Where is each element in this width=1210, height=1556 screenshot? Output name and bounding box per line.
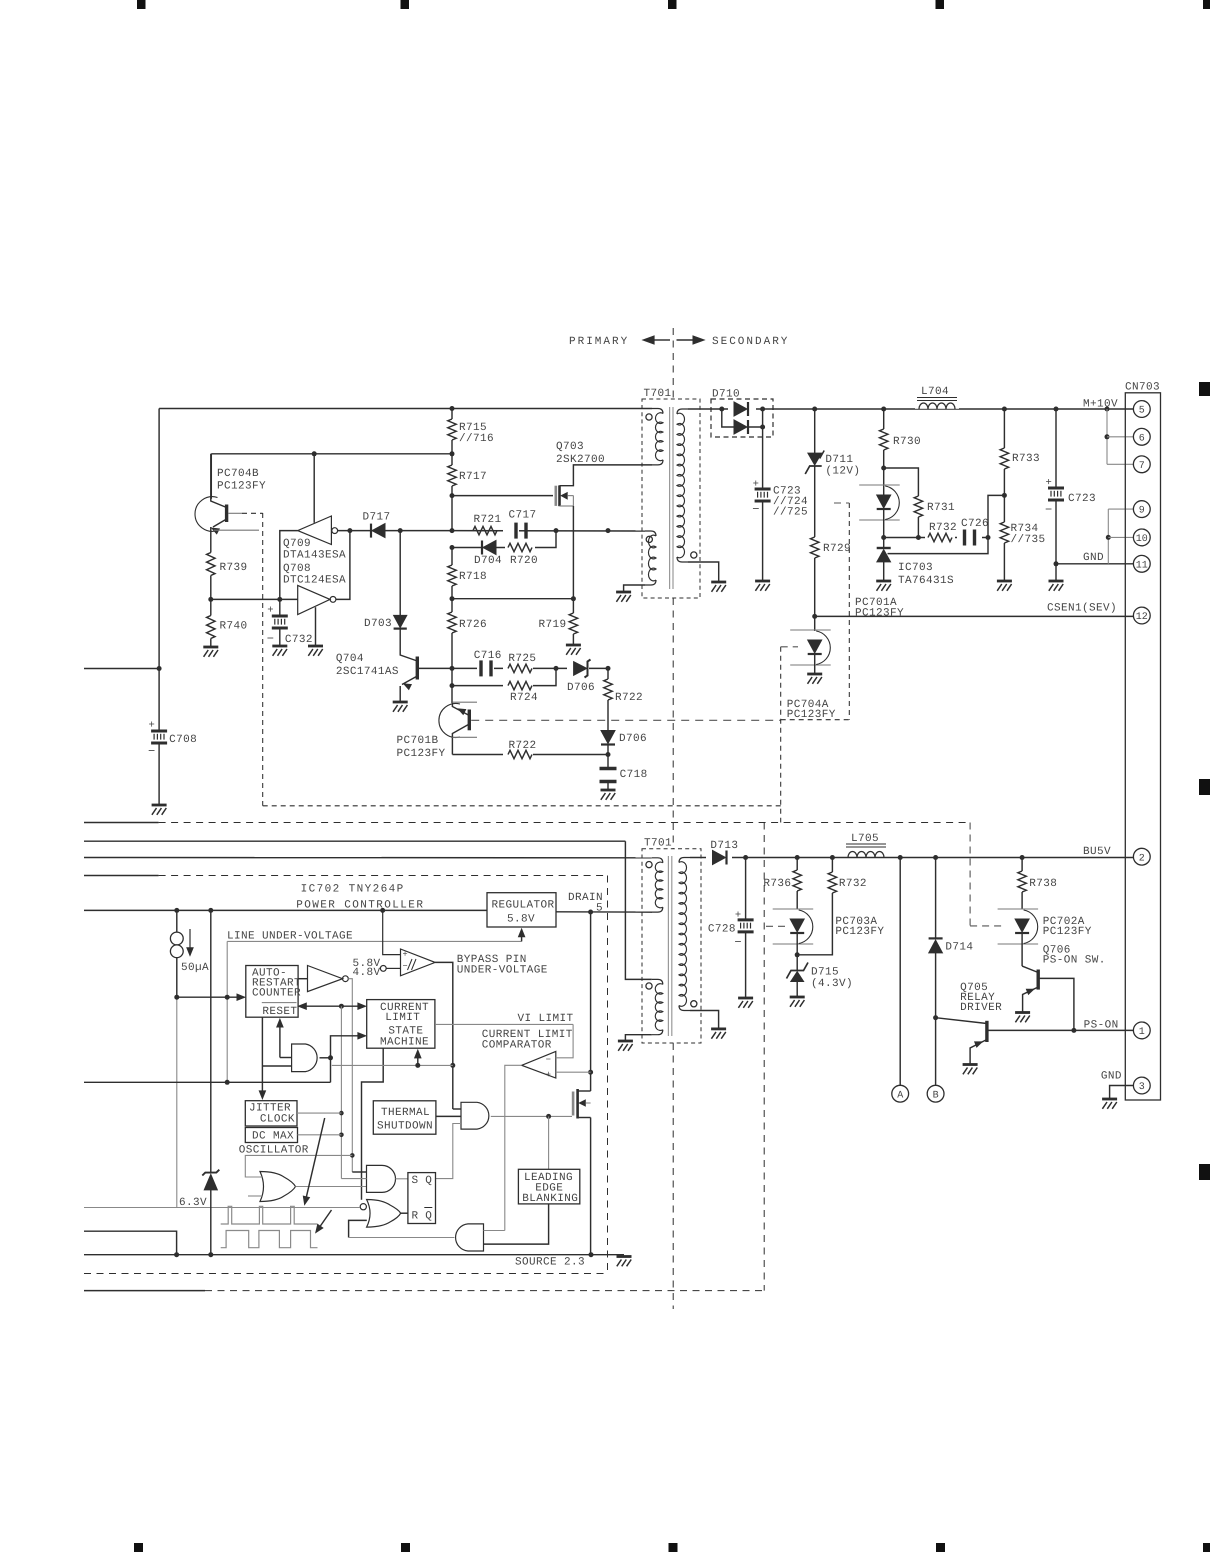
capacitor C716 bbox=[477, 660, 494, 677]
wire R739 to junction bbox=[210, 576, 212, 600]
ground T701 bottom secondary bbox=[711, 1028, 726, 1031]
resistor R726 bbox=[448, 612, 456, 633]
svg-text:R720: R720 bbox=[510, 555, 538, 567]
wire rail y1082.3 bbox=[84, 1081, 331, 1083]
svg-text:R730: R730 bbox=[893, 436, 921, 448]
transistor Q709 DTA143ESA inverter symbol bbox=[298, 516, 332, 545]
svg-text:R732: R732 bbox=[839, 878, 867, 890]
optocoupler PC704A bbox=[814, 616, 816, 631]
svg-text:R733: R733 bbox=[1012, 453, 1040, 465]
svg-text:−: − bbox=[546, 1055, 551, 1065]
svg-text:LINE UNDER-VOLTAGE: LINE UNDER-VOLTAGE bbox=[227, 931, 353, 943]
separator dashed line primary/secondary bbox=[672, 328, 674, 399]
wire blanking and input from comparator bbox=[484, 1230, 505, 1232]
svg-text:D706: D706 bbox=[619, 733, 647, 745]
resistor R739 bbox=[207, 553, 215, 576]
svg-text:D706: D706 bbox=[567, 682, 595, 694]
registration mark top 2 bbox=[401, 0, 410, 9]
capacitor C728 bbox=[745, 858, 747, 920]
svg-text:R729: R729 bbox=[823, 543, 851, 555]
wire LEB top gray bbox=[548, 1116, 550, 1169]
ground T701 top primary bbox=[616, 591, 631, 594]
capacitor C708 bbox=[151, 730, 167, 733]
wire left stub y668.5 bbox=[84, 668, 159, 670]
svg-text:GND: GND bbox=[1083, 552, 1104, 564]
svg-text:PC701B: PC701B bbox=[397, 735, 439, 747]
svg-text:R726: R726 bbox=[459, 619, 487, 631]
wire y598.7 bbox=[452, 598, 573, 600]
svg-text:TA76431S: TA76431S bbox=[898, 575, 954, 587]
arrow jitter to waveform bbox=[306, 1118, 324, 1197]
wire PC704B collector bbox=[210, 454, 212, 499]
wire Q to and input bbox=[436, 1124, 462, 1179]
svg-text:Q: Q bbox=[425, 1175, 432, 1187]
svg-text:PC704B: PC704B bbox=[217, 468, 259, 480]
diode D713 bbox=[706, 850, 732, 865]
wire Q704 collector bbox=[400, 652, 417, 661]
ground Q705 bbox=[963, 1063, 978, 1066]
dash link PC701B base bbox=[471, 719, 781, 721]
svg-text:DC MAX: DC MAX bbox=[252, 1131, 294, 1143]
wire C708 to ground bbox=[158, 744, 160, 805]
wire inverter output gray bbox=[348, 979, 352, 1172]
resistor R732 bbox=[925, 531, 955, 544]
wire schmitt out into and bbox=[453, 1108, 461, 1110]
inverter after auto-restart bbox=[308, 966, 343, 992]
svg-text:CN703: CN703 bbox=[1125, 382, 1160, 394]
wire A branch bbox=[899, 858, 901, 1086]
svg-text:R732: R732 bbox=[929, 522, 957, 534]
transformer T701 top core bbox=[669, 407, 671, 589]
svg-text:C723: C723 bbox=[1068, 493, 1096, 505]
svg-text:5: 5 bbox=[1139, 406, 1145, 417]
diode D710 dashed box bbox=[711, 399, 773, 437]
wire comparator minus input bbox=[556, 1024, 573, 1057]
resistor R721 bbox=[473, 526, 497, 534]
svg-text:R725: R725 bbox=[508, 653, 536, 665]
and gate thermal bbox=[461, 1102, 489, 1129]
svg-text:2: 2 bbox=[1139, 853, 1145, 864]
capacitor C723 //724 //725 bbox=[755, 488, 771, 491]
wire drain rail bbox=[556, 911, 652, 913]
diode D710 b bbox=[722, 409, 734, 427]
wire R721 C717 branch y530.6 to winding bbox=[452, 530, 645, 532]
wire blanking and output bbox=[349, 1237, 455, 1239]
svg-text:12: 12 bbox=[1136, 612, 1148, 623]
dashed IC702 box bottom y1273.5 bbox=[84, 1273, 608, 1275]
wire and output up to machine arrow bbox=[331, 1036, 360, 1058]
node A bbox=[892, 1085, 909, 1102]
wire comparator output bbox=[505, 1065, 522, 1230]
svg-text:L704: L704 bbox=[921, 386, 949, 398]
svg-text:THERMAL: THERMAL bbox=[381, 1107, 430, 1119]
wire link pins 6 7 bbox=[1106, 409, 1108, 464]
registration mark top 3 bbox=[668, 0, 677, 9]
shunt regulator IC703 TA76431S bbox=[877, 547, 891, 549]
resistor R719 bbox=[572, 599, 574, 613]
wire R722 horizontal branch y754.5 bbox=[452, 754, 608, 756]
svg-text://735: //735 bbox=[1011, 534, 1046, 546]
resistor R725 bbox=[503, 662, 533, 675]
capacitor C723 (output) bbox=[1055, 409, 1057, 488]
ground IC703 bbox=[876, 580, 891, 583]
svg-text:R724: R724 bbox=[510, 692, 538, 704]
wire nor top input gray long bbox=[84, 1207, 360, 1209]
wire s-and input1 bbox=[352, 1171, 366, 1173]
optocoupler PC702A bbox=[998, 908, 1039, 910]
svg-text:D713: D713 bbox=[710, 840, 738, 852]
svg-text:Q704: Q704 bbox=[336, 653, 364, 665]
svg-text:C717: C717 bbox=[509, 510, 537, 522]
pin 2 bbox=[1133, 848, 1150, 865]
svg-text:C726: C726 bbox=[961, 518, 989, 530]
wire CSEN1 line y616.4 bbox=[815, 615, 1134, 617]
dashed bottom line y1290.6 with solid left stub bbox=[84, 1290, 205, 1292]
svg-text:RESET: RESET bbox=[262, 1006, 297, 1018]
wire Q704 emitter bbox=[402, 676, 417, 685]
wire comparator plus input bbox=[556, 1071, 591, 1073]
wire line under-voltage gray bbox=[227, 940, 521, 942]
svg-text:C718: C718 bbox=[620, 769, 648, 781]
transformer T701 top secondary winding bbox=[677, 409, 688, 414]
ground Q708 bbox=[308, 645, 323, 648]
wire GND line y563.8 bbox=[1056, 563, 1134, 565]
svg-text:−: − bbox=[267, 632, 275, 646]
svg-text:GND: GND bbox=[1101, 1071, 1122, 1083]
wire drain vertical bbox=[590, 912, 592, 1091]
ground R719 bbox=[566, 644, 581, 647]
ground Q704 bbox=[393, 701, 408, 704]
svg-text:MACHINE: MACHINE bbox=[380, 1037, 429, 1049]
resistor R722 horizontal bbox=[503, 748, 533, 761]
registration mark bottom 5 bbox=[1203, 1543, 1210, 1552]
dash stub PC701A bbox=[834, 502, 849, 504]
diode D714 bbox=[929, 937, 943, 939]
wire rail y910.4 bbox=[84, 909, 487, 911]
ground T701 bottom primary bbox=[618, 1040, 633, 1043]
resistor R715 //716 bbox=[451, 409, 453, 420]
svg-text:PC123FY: PC123FY bbox=[397, 748, 446, 760]
svg-text:C708: C708 bbox=[169, 734, 197, 746]
dashed box PC704A right bbox=[848, 503, 850, 720]
pin 7 bbox=[1133, 456, 1150, 473]
ground C732 bbox=[272, 645, 287, 648]
ground T701 top secondary bbox=[711, 581, 726, 584]
pin 5 bbox=[1133, 401, 1150, 418]
resistor R718 bbox=[451, 548, 453, 566]
wire 50uA down gray bbox=[176, 997, 178, 1207]
svg-text:DTC124ESA: DTC124ESA bbox=[283, 575, 346, 587]
wire gray vertical x341.4 bbox=[340, 1006, 342, 1178]
optocoupler PC703A bbox=[773, 908, 814, 910]
transformer T701 top dashed box bbox=[642, 399, 700, 598]
svg-text:PC123FY: PC123FY bbox=[217, 481, 266, 493]
wire long rail y857.5 to T701 bottom bbox=[84, 857, 652, 859]
ground R740 bbox=[203, 646, 218, 649]
resistor R740 bbox=[207, 616, 215, 639]
wire R724 branch y685.6 bbox=[452, 668, 556, 685]
svg-text:(4.3V): (4.3V) bbox=[811, 978, 853, 990]
svg-text:D710: D710 bbox=[712, 389, 740, 401]
svg-text:+: + bbox=[267, 605, 274, 617]
wire Q704 base bbox=[417, 667, 452, 669]
block AUTO-RESTART COUNTER RESET bbox=[246, 966, 298, 1018]
block JITTER CLOCK bbox=[245, 1101, 297, 1126]
svg-text:R739: R739 bbox=[220, 562, 248, 574]
comparator current limit bbox=[522, 1051, 556, 1078]
wire PC701A cathode to node bbox=[883, 510, 885, 549]
wire D704 R720 branch y547.5 bbox=[450, 545, 455, 550]
wire s-and output to S bbox=[395, 1178, 408, 1180]
wire dc max output bbox=[298, 1134, 342, 1136]
wire Q709 input bbox=[280, 531, 298, 600]
ground D715 bbox=[790, 996, 805, 999]
wire long rail y841.2 bbox=[84, 840, 625, 842]
svg-text:REGULATOR: REGULATOR bbox=[492, 900, 555, 912]
resistor R722 vertical bbox=[604, 679, 612, 700]
svg-text:C716: C716 bbox=[474, 650, 502, 662]
svg-text:D703: D703 bbox=[364, 618, 392, 630]
block CURRENT LIMIT STATE MACHINE bbox=[367, 1000, 435, 1049]
dashed IC702 box top y875.5 with solid left stub bbox=[84, 875, 159, 877]
svg-text:S: S bbox=[412, 1175, 419, 1187]
resistor R717 bbox=[451, 454, 453, 465]
wire mosfet source down bbox=[590, 1118, 592, 1255]
ground C718 bbox=[601, 789, 616, 792]
dashed IC702 box right x607.5 bbox=[607, 876, 609, 1274]
resistor R720 bbox=[505, 541, 535, 554]
pin 9 bbox=[1133, 501, 1150, 518]
svg-text:+: + bbox=[735, 910, 742, 922]
svg-text:7: 7 bbox=[1139, 461, 1145, 472]
pin 3 bbox=[1133, 1077, 1150, 1094]
svg-text:L705: L705 bbox=[851, 833, 879, 845]
svg-text:1: 1 bbox=[1139, 1027, 1145, 1038]
wire IC703 ref bbox=[888, 538, 989, 554]
arrow to waveform 2 bbox=[320, 1210, 331, 1226]
s-and gate bbox=[367, 1165, 396, 1192]
svg-text:9: 9 bbox=[1139, 506, 1145, 517]
current source 50uA bbox=[170, 932, 183, 945]
wire BU5V rail y857.5 bbox=[690, 857, 1134, 859]
svg-text:+: + bbox=[546, 1070, 551, 1080]
wire R732 C726 line y537.5 bbox=[884, 537, 988, 539]
diode D704 bbox=[483, 541, 496, 555]
svg-text:−: − bbox=[148, 745, 156, 759]
svg-text:C728: C728 bbox=[708, 924, 736, 936]
svg-text:BLANKING: BLANKING bbox=[522, 1193, 578, 1205]
ground R734 bbox=[997, 580, 1012, 583]
svg-text:PS-ON: PS-ON bbox=[1084, 1020, 1119, 1032]
wire s-and input2 bbox=[341, 1178, 366, 1180]
optocoupler PC701B phototransistor bbox=[439, 704, 460, 738]
registration mark bottom 1 bbox=[134, 1543, 143, 1552]
pin 10 bbox=[1133, 529, 1150, 546]
svg-text:+: + bbox=[753, 479, 760, 491]
ground C708 bbox=[152, 804, 167, 807]
mosfet IC702 output bbox=[572, 1092, 575, 1116]
svg-text:IC702 TNY264P: IC702 TNY264P bbox=[301, 884, 405, 896]
svg-text:T701: T701 bbox=[644, 388, 672, 400]
svg-text:4.8V: 4.8V bbox=[353, 967, 381, 979]
svg-text:OSCILLATOR: OSCILLATOR bbox=[239, 1145, 309, 1157]
wire D717 line y530.6 bbox=[338, 530, 452, 532]
or gate oscillator bbox=[260, 1172, 296, 1202]
and gate upper bbox=[292, 1044, 318, 1072]
svg-text:SECONDARY: SECONDARY bbox=[712, 336, 789, 348]
diode D715 zener 4.3V bbox=[787, 963, 809, 979]
transistor Q706 ps-on switch bbox=[1021, 934, 1023, 967]
nor gate bbox=[367, 1200, 401, 1228]
resistor R724 bbox=[503, 679, 533, 692]
wire left line y1231.2 bbox=[84, 1231, 177, 1255]
capacitor C726 bbox=[957, 529, 982, 546]
registration mark top 4 bbox=[936, 0, 945, 9]
wire T701 bottom primary2 to ground bbox=[625, 1035, 651, 1041]
svg-text:2SC1741AS: 2SC1741AS bbox=[336, 666, 399, 678]
svg-text:Q708: Q708 bbox=[283, 563, 311, 575]
dashed line y822.5 with solid left stub bbox=[84, 822, 159, 824]
svg-text:A: A bbox=[897, 1090, 903, 1101]
transformer T701 bottom secondary winding bbox=[679, 858, 690, 863]
svg-text:5.8V: 5.8V bbox=[507, 914, 535, 926]
svg-text:6.3V: 6.3V bbox=[179, 1197, 207, 1209]
capacitor C718 bbox=[600, 767, 617, 770]
pin 6 bbox=[1133, 428, 1150, 445]
pin 11 bbox=[1133, 555, 1150, 572]
dashed lower secondary box bbox=[969, 823, 971, 926]
svg-text:Q709: Q709 bbox=[283, 538, 311, 550]
svg-text:R736: R736 bbox=[763, 878, 791, 890]
wire thermal box to and bbox=[436, 1115, 461, 1117]
zener 6.3V bbox=[210, 910, 212, 1172]
svg-text:3: 3 bbox=[1139, 1082, 1145, 1093]
wire rail y841.2 down to winding2 bbox=[625, 841, 651, 979]
resistor R734 //735 bbox=[1000, 522, 1008, 543]
arrow into machine bottom from 1065 line bbox=[417, 1057, 419, 1066]
svg-text:SHUTDOWN: SHUTDOWN bbox=[377, 1121, 433, 1133]
registration mark bottom 3 bbox=[669, 1543, 678, 1552]
block REGULATOR 5.8V bbox=[487, 893, 556, 927]
wire B branch with D714 bbox=[935, 858, 937, 939]
svg-text:LIMIT: LIMIT bbox=[385, 1012, 420, 1024]
resistor R731 bbox=[884, 468, 919, 496]
wire or inputs bbox=[245, 1155, 352, 1177]
wire T701 secondary bottom to ground bbox=[688, 562, 719, 582]
svg-text:R738: R738 bbox=[1029, 878, 1057, 890]
transformer T701 top primary winding 1 bbox=[652, 409, 663, 414]
diode D703 bbox=[399, 531, 401, 616]
svg-text:C732: C732 bbox=[285, 634, 313, 646]
svg-text:R731: R731 bbox=[927, 502, 955, 514]
wire and gate output bbox=[320, 1057, 331, 1059]
svg-text:11: 11 bbox=[1136, 560, 1148, 571]
registration mark right 2 bbox=[1199, 779, 1210, 795]
dashed box around secondary feedback bbox=[242, 512, 263, 514]
diode D711 zener 12V bbox=[814, 409, 816, 453]
svg-text:D715: D715 bbox=[811, 967, 839, 979]
wire VI limit gray bbox=[436, 1023, 573, 1025]
wire PC703A cathode node bbox=[796, 934, 798, 971]
block SR latch bbox=[408, 1173, 436, 1224]
svg-text:PC123FY: PC123FY bbox=[835, 926, 884, 938]
wire T701 primary2 bottom to ground bbox=[624, 585, 645, 592]
diode D717 bbox=[372, 524, 385, 538]
wire nor bottom input bbox=[349, 1220, 367, 1237]
wire Q703 gate bbox=[452, 495, 553, 497]
svg-text:+: + bbox=[148, 719, 155, 731]
svg-text:D717: D717 bbox=[363, 512, 391, 524]
ground C728 bbox=[738, 997, 753, 1000]
wire schmitt output bbox=[435, 962, 453, 1109]
wire auto-restart bottom arrow bbox=[280, 1057, 292, 1059]
diode D706 vertical bbox=[601, 731, 615, 744]
resistor R732 (secondary) bbox=[831, 858, 833, 873]
svg-text:CLOCK: CLOCK bbox=[260, 1114, 295, 1126]
transformer T701 bottom primary winding 2 bbox=[652, 979, 663, 984]
svg-text:R: R bbox=[412, 1211, 419, 1223]
svg-text:BU5V: BU5V bbox=[1083, 846, 1111, 858]
svg-text://716: //716 bbox=[459, 433, 494, 445]
svg-text:R717: R717 bbox=[459, 471, 487, 483]
resistor R736 bbox=[796, 858, 798, 871]
dash stub PC704A led bbox=[781, 646, 798, 648]
arrow into regulator bottom bbox=[521, 937, 523, 941]
svg-text:SOURCE 2.3: SOURCE 2.3 bbox=[515, 1257, 585, 1269]
svg-text:IC703: IC703 bbox=[898, 562, 933, 574]
svg-text:−: − bbox=[734, 935, 742, 949]
wire machine box down to NOR bbox=[362, 1048, 384, 1200]
wire source rail y1254.7 bbox=[84, 1254, 591, 1256]
svg-text:DRIVER: DRIVER bbox=[960, 1002, 1002, 1014]
wire nor output to R bbox=[401, 1212, 408, 1214]
registration mark top 1 bbox=[137, 0, 146, 9]
arrow secondary (right) bbox=[677, 339, 694, 341]
svg-text:CSEN1(SEV): CSEN1(SEV) bbox=[1047, 603, 1117, 615]
svg-text:+: + bbox=[1045, 477, 1052, 489]
registration mark bottom 4 bbox=[936, 1543, 945, 1552]
capacitor C732 bbox=[279, 599, 281, 616]
svg-text:R719: R719 bbox=[538, 619, 566, 631]
schmitt trigger bypass UV bbox=[380, 966, 386, 972]
ground C723 output bbox=[1049, 580, 1064, 583]
svg-text:−: − bbox=[1045, 503, 1053, 517]
wire top rail y408.5 bbox=[159, 408, 652, 410]
svg-text:R722: R722 bbox=[615, 692, 643, 704]
transistor Q708 DTC124ESA inverter symbol bbox=[298, 585, 330, 614]
svg-text:D711: D711 bbox=[825, 454, 853, 466]
wire T701 bottom secondary to ground bbox=[690, 1011, 719, 1029]
node B bbox=[927, 1085, 944, 1102]
wire y453.8 rail bbox=[211, 453, 452, 455]
registration mark top 5 bbox=[1203, 0, 1210, 9]
wire auto-restart down to jitter clock bbox=[261, 1017, 263, 1091]
dash stub PC703A led bbox=[766, 925, 789, 927]
wire Q708 ground lead bbox=[315, 607, 317, 646]
ground C723 bbox=[755, 580, 770, 583]
resistor R729 bbox=[811, 537, 819, 558]
svg-text:Q703: Q703 bbox=[556, 441, 584, 453]
block LEADING EDGE BLANKING bbox=[518, 1169, 579, 1204]
ground source bbox=[617, 1255, 632, 1258]
ground PC704A bbox=[807, 673, 822, 676]
wire reset line y1006.2 bbox=[298, 1003, 307, 1010]
waveform 2 bbox=[221, 1231, 318, 1248]
svg-text:PC123FY: PC123FY bbox=[1043, 926, 1092, 938]
optocoupler PC704B phototransistor bbox=[195, 497, 218, 532]
svg-text:DTA143ESA: DTA143ESA bbox=[283, 550, 346, 562]
arrow primary (left) bbox=[642, 336, 654, 345]
